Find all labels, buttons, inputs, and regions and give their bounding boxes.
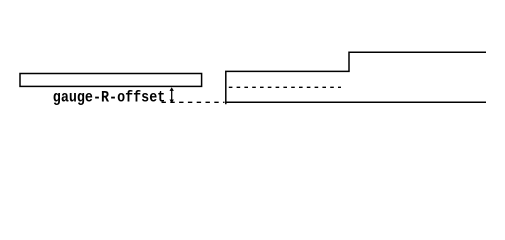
right step profile top contour [226,52,486,104]
bottom solid baseline [226,101,486,103]
dimension arrow (double-headed) [170,87,174,103]
dashed line inside step (rect-bottom level) [229,86,341,88]
svg-text:gauge-R-offset: gauge-R-offset [53,89,166,107]
left dashed baseline [162,101,225,103]
left rectangle (gauge body) [20,74,202,87]
